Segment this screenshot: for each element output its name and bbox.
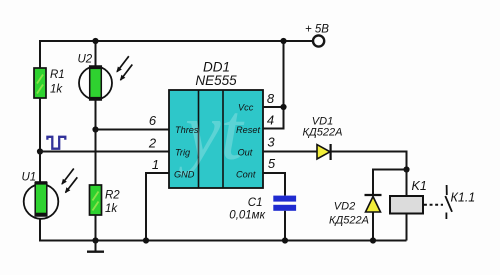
svg-text:1k: 1k: [105, 203, 118, 215]
wire: Out pin 3 to VD1: [263, 151, 318, 153]
wire: Cont pin 5 to C1: [263, 173, 285, 196]
node: bottom rail / ground junction: [92, 237, 98, 243]
svg-text:Trig: Trig: [175, 148, 191, 158]
contact K1.1: [445, 185, 452, 219]
wire: C1 to bottom rail: [284, 211, 286, 241]
svg-text:U2: U2: [78, 54, 93, 66]
svg-text:5: 5: [268, 156, 276, 171]
resistor R2 (photoresistor): [90, 185, 102, 215]
wire: Vcc pin 8 to supply node: [263, 106, 284, 108]
relay K1 coil: [390, 196, 423, 214]
svg-text:КД522А: КД522А: [303, 127, 343, 139]
power terminal +5V: [313, 35, 324, 46]
node: top rail / U2 junction: [92, 38, 98, 44]
svg-text:4: 4: [267, 113, 274, 128]
wire: junction down through relay to bottom rail: [406, 170, 408, 241]
wire: VD2 to bottom rail: [372, 212, 374, 241]
svg-text:Cont: Cont: [236, 170, 256, 180]
ground: [87, 241, 104, 252]
pulse waveform icon: [47, 137, 65, 149]
svg-text:GND: GND: [174, 170, 195, 180]
wire: VD2 branch: [373, 170, 407, 196]
wire: top supply rail: [40, 40, 313, 42]
node: relay / VD2 junction: [403, 166, 409, 172]
node: U2 / Thres junction: [92, 126, 98, 132]
wire: supply drop from top rail: [283, 41, 285, 129]
svg-text:NE555: NE555: [195, 73, 237, 88]
svg-text:К1.1: К1.1: [451, 191, 476, 205]
wire: Trig line to pin 2: [40, 151, 169, 153]
svg-text:Reset: Reset: [236, 125, 260, 135]
wire: GND pin 1 to bottom rail: [146, 173, 169, 241]
svg-text:1: 1: [152, 157, 159, 172]
svg-text:VD2: VD2: [334, 201, 355, 213]
svg-text:Thres: Thres: [175, 125, 199, 135]
svg-text:6: 6: [149, 113, 157, 128]
photodetector U1: [24, 169, 78, 219]
diode VD1: [317, 144, 331, 160]
svg-text:8: 8: [267, 91, 275, 106]
svg-text:0,01мк: 0,01мк: [229, 210, 265, 222]
IC DD1 NE555: [169, 88, 263, 188]
wire: left rail Trig node to U1: [39, 152, 41, 186]
node: GND / bottom rail junction: [143, 237, 149, 243]
svg-text:C1: C1: [248, 197, 263, 209]
wire: left rail top segment: [39, 40, 41, 68]
svg-text:Vcc: Vcc: [238, 103, 254, 113]
node: top rail / supply drop: [280, 38, 286, 44]
wire: Thres node down to R2: [95, 130, 97, 186]
svg-text:КД522А: КД522А: [329, 215, 369, 227]
svg-text:Out: Out: [238, 148, 253, 158]
wire: Reset pin 4: [263, 128, 285, 130]
svg-text:2: 2: [148, 136, 157, 151]
wire: VD1 to relay corner: [331, 152, 407, 170]
svg-text:K1: K1: [412, 179, 427, 193]
capacitor C1: [273, 196, 296, 211]
diode VD2: [365, 195, 382, 212]
wire: U2 to Thres node: [95, 100, 97, 130]
svg-text:R1: R1: [50, 69, 65, 81]
svg-text:R2: R2: [105, 190, 120, 202]
wire: U1 to bottom rail: [39, 219, 41, 242]
node: VD2 / bottom rail: [370, 237, 376, 243]
wire: left rail R1 to Trig node: [39, 98, 41, 152]
wire: Thres line to pin 6: [96, 129, 170, 131]
svg-text:3: 3: [267, 135, 275, 150]
resistor R1 (photoresistor): [34, 68, 46, 98]
wire: U2 branch from top rail: [95, 41, 97, 67]
wire: dashed mechanical link: [424, 204, 443, 206]
photodetector U2: [79, 56, 132, 100]
wire: bottom rail: [39, 240, 407, 242]
node: Vcc junction: [280, 104, 286, 110]
node: left rail / Trig junction: [37, 148, 43, 154]
svg-text:+ 5В: + 5В: [305, 24, 329, 36]
wire: R2 to bottom rail: [95, 215, 97, 241]
svg-text:U1: U1: [22, 172, 37, 184]
svg-text:1k: 1k: [50, 84, 63, 96]
node: C1 / bottom rail: [282, 237, 288, 243]
